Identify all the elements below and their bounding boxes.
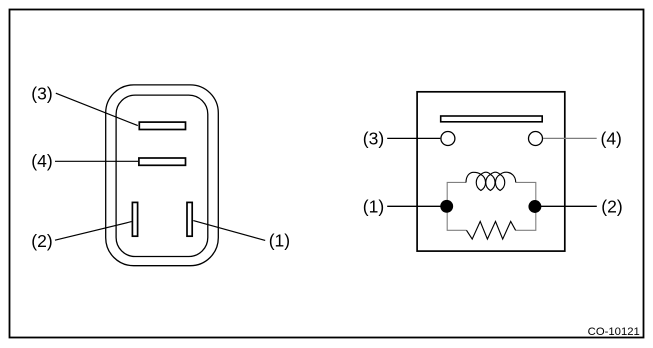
terminal circle (3) xyxy=(441,132,455,146)
leader line (3) connector xyxy=(56,93,138,125)
svg-text:(4): (4) xyxy=(31,151,52,171)
terminal slot (1) xyxy=(187,202,192,236)
leader line (1) connector xyxy=(193,221,265,241)
resistor (relay winding shunt) xyxy=(467,221,516,239)
wire top-right segment xyxy=(516,182,536,204)
svg-text:(2): (2) xyxy=(31,231,52,251)
terminal slot (4) xyxy=(139,158,186,165)
wire top-left segment xyxy=(447,182,466,204)
leader line (3) schematic xyxy=(387,137,440,139)
relay schematic box xyxy=(417,92,565,251)
svg-text:(3): (3) xyxy=(31,83,52,103)
svg-text:(4): (4) xyxy=(601,129,622,149)
node (2) junction dot xyxy=(528,200,541,213)
terminal slot (2) xyxy=(132,202,137,236)
connector body inner outline xyxy=(116,95,208,256)
connector body outer outline xyxy=(106,85,219,266)
leader line (2) schematic xyxy=(541,205,597,207)
wire bottom-right segment xyxy=(516,209,536,230)
terminal circle (4) xyxy=(529,132,543,146)
svg-text:CO-10121: CO-10121 xyxy=(588,326,640,338)
terminal slot (3) xyxy=(139,122,185,129)
coil (relay winding) xyxy=(466,172,516,190)
svg-text:(1): (1) xyxy=(363,197,384,217)
leader line (4) schematic xyxy=(543,137,597,139)
svg-text:(3): (3) xyxy=(363,129,384,149)
svg-text:(2): (2) xyxy=(601,196,622,216)
leader line (4) connector xyxy=(55,160,138,162)
node (1) junction dot xyxy=(440,200,453,213)
wire bottom-left segment xyxy=(447,209,466,230)
svg-text:(1): (1) xyxy=(269,231,290,251)
mounting bar xyxy=(441,116,543,122)
leader line (2) connector xyxy=(55,222,132,241)
leader line (1) schematic xyxy=(387,205,441,207)
